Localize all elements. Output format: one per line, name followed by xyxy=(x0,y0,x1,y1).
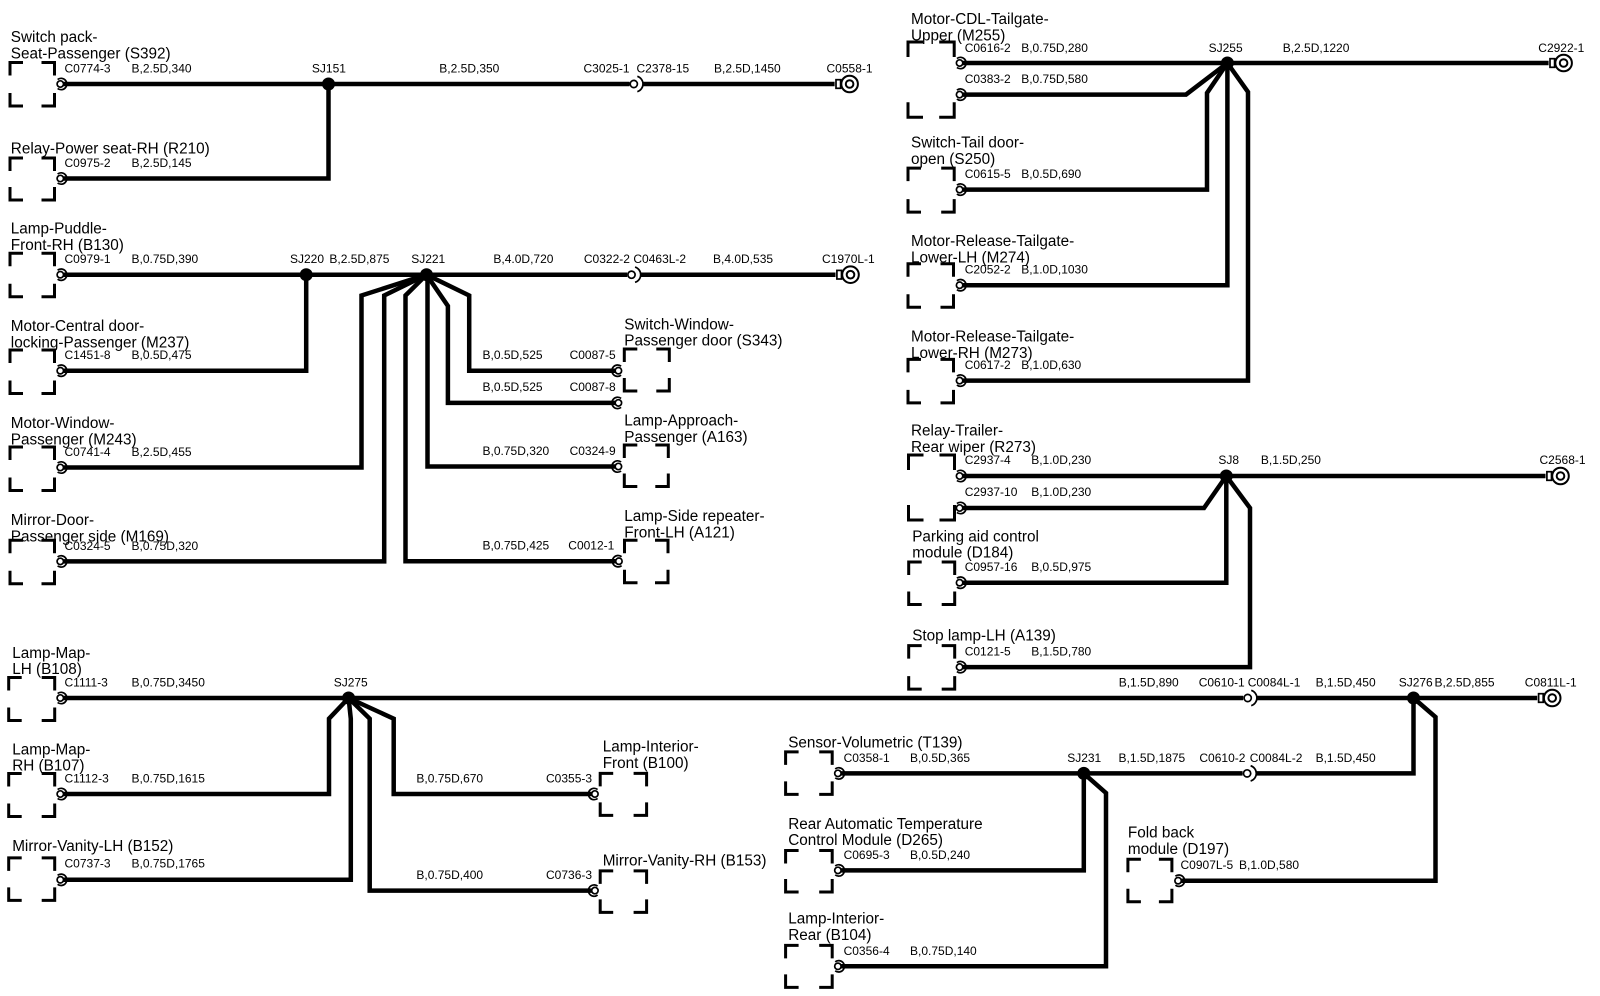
svg-text:C0957-16: C0957-16 xyxy=(965,560,1018,574)
connector box T139 xyxy=(786,752,833,795)
splice SJ151 xyxy=(322,78,335,91)
connector box D184 xyxy=(909,562,955,605)
pin C0087-8 xyxy=(612,397,622,408)
wire M243 C0741-4 to SJ221 xyxy=(63,275,427,468)
eyelet terminal C0811L-1 xyxy=(1539,690,1561,707)
wire B130 C0979-1 to C0322-2 xyxy=(63,272,627,277)
svg-text:B,1.0D,1030: B,1.0D,1030 xyxy=(1021,263,1088,277)
pin C0695-3 xyxy=(835,865,845,876)
svg-text:C1112-3: C1112-3 xyxy=(65,771,110,785)
wire S250 C0615-5 to SJ255 xyxy=(963,63,1227,190)
svg-text:C0121-5: C0121-5 xyxy=(965,644,1011,658)
wire M255 C0616-2 to C2922-1 xyxy=(963,61,1549,66)
svg-text:B,1.0D,630: B,1.0D,630 xyxy=(1021,358,1081,372)
svg-text:B,0.5D,365: B,0.5D,365 xyxy=(910,751,970,765)
wire B107 C1112-3 to SJ275 xyxy=(63,698,349,794)
eyelet terminal C0558-1 xyxy=(836,76,858,93)
inline connector C0322-2/C0463L-2 xyxy=(628,267,641,282)
connector box S250 xyxy=(908,168,954,212)
pin C0774-3 xyxy=(57,78,67,89)
svg-text:C0087-8: C0087-8 xyxy=(570,380,616,394)
svg-text:C0617-2: C0617-2 xyxy=(965,358,1011,372)
wire SJ221 to C0324-9 xyxy=(428,275,616,467)
svg-text:C0811L-1: C0811L-1 xyxy=(1525,676,1577,690)
wire M274 C2052-2 to SJ255 xyxy=(963,63,1227,285)
connector box M255 xyxy=(908,42,954,117)
wire D197 C0907L-5 to SJ276 xyxy=(1181,698,1435,881)
pin C2937-10 xyxy=(956,502,966,513)
inline connector C3025-1/C2378-15 xyxy=(630,76,643,91)
wire M255 C0383-2 to SJ255 xyxy=(963,63,1227,95)
splice SJ231 xyxy=(1077,767,1090,780)
svg-text:C2568-1: C2568-1 xyxy=(1540,453,1586,467)
connector box B104 xyxy=(786,945,833,987)
wire R273 C2937-10 to SJ8 xyxy=(963,476,1226,508)
svg-text:Lamp-Map-: Lamp-Map- xyxy=(12,645,90,662)
svg-text:Switch-Tail door-: Switch-Tail door- xyxy=(911,135,1024,152)
svg-text:Stop lamp-LH (A139): Stop lamp-LH (A139) xyxy=(912,628,1056,645)
svg-text:B,0.5D,525: B,0.5D,525 xyxy=(483,380,543,394)
connector box R210 xyxy=(10,158,55,200)
svg-text:B,0.5D,690: B,0.5D,690 xyxy=(1021,167,1081,181)
svg-text:C2378-15: C2378-15 xyxy=(637,62,690,76)
connector box B108 xyxy=(9,678,55,721)
pin C0324-5 xyxy=(57,556,67,567)
svg-text:B,1.5D,780: B,1.5D,780 xyxy=(1031,644,1091,658)
svg-text:Control Module (D265): Control Module (D265) xyxy=(788,832,943,849)
svg-text:B,2.5D,455: B,2.5D,455 xyxy=(132,445,192,459)
pin C0957-16 xyxy=(956,577,966,588)
svg-text:B,1.5D,890: B,1.5D,890 xyxy=(1119,676,1179,690)
svg-text:SJ151: SJ151 xyxy=(312,62,346,76)
pin C0741-4 xyxy=(57,462,67,473)
svg-text:Rear (B104): Rear (B104) xyxy=(788,927,871,944)
svg-text:C0012-1: C0012-1 xyxy=(568,539,614,553)
wire D265 C0695-3 to SJ231 xyxy=(841,773,1084,870)
svg-text:B,0.75D,400: B,0.75D,400 xyxy=(416,868,483,882)
svg-text:C2922-1: C2922-1 xyxy=(1538,41,1584,55)
wire R210 C0975-2 to SJ151 xyxy=(63,84,329,179)
svg-text:B,1.0D,580: B,1.0D,580 xyxy=(1239,858,1299,872)
svg-text:Lamp-Interior-: Lamp-Interior- xyxy=(788,911,884,928)
svg-text:B,4.0D,535: B,4.0D,535 xyxy=(713,252,773,266)
svg-text:Lamp-Side repeater-: Lamp-Side repeater- xyxy=(624,508,764,525)
svg-text:B,0.75D,140: B,0.75D,140 xyxy=(910,944,977,958)
pin C1451-8 xyxy=(57,365,67,376)
svg-text:Passenger (A163): Passenger (A163) xyxy=(624,429,747,446)
svg-text:SJ255: SJ255 xyxy=(1209,41,1243,55)
svg-text:B,0.75D,580: B,0.75D,580 xyxy=(1021,72,1088,86)
pin C0616-2 xyxy=(956,57,966,68)
svg-text:B,2.5D,1220: B,2.5D,1220 xyxy=(1283,41,1350,55)
wire C0084L-2 to SJ276 xyxy=(1256,698,1413,773)
svg-text:B,0.75D,1765: B,0.75D,1765 xyxy=(132,857,206,871)
svg-text:open (S250): open (S250) xyxy=(911,151,995,168)
connector box D265 xyxy=(786,851,833,893)
svg-text:C0324-9: C0324-9 xyxy=(570,444,616,458)
inline connector C0610-2/C0084L-2 xyxy=(1244,766,1257,781)
svg-text:C0358-1: C0358-1 xyxy=(844,751,890,765)
svg-text:C0695-3: C0695-3 xyxy=(844,848,890,862)
svg-text:Sensor-Volumetric (T139): Sensor-Volumetric (T139) xyxy=(788,734,962,751)
pin C0355-3 xyxy=(588,788,598,799)
svg-text:C0736-3: C0736-3 xyxy=(546,868,592,882)
svg-text:B,2.5D,855: B,2.5D,855 xyxy=(1435,676,1495,690)
wire B104 C0356-4 to SJ231 xyxy=(841,773,1106,966)
svg-text:B,1.0D,230: B,1.0D,230 xyxy=(1031,453,1091,467)
connector box A121 xyxy=(625,540,669,583)
svg-text:B,2.5D,1450: B,2.5D,1450 xyxy=(714,62,781,76)
wire M237 C1451-8 to SJ220 xyxy=(63,275,306,371)
connector box B152 xyxy=(9,858,55,901)
svg-text:Motor-CDL-Tailgate-: Motor-CDL-Tailgate- xyxy=(911,11,1049,28)
svg-text:C0907L-5: C0907L-5 xyxy=(1181,858,1234,872)
svg-text:Relay-Power seat-RH (R210): Relay-Power seat-RH (R210) xyxy=(11,141,210,158)
wire M169 C0324-5 to SJ221 xyxy=(63,275,427,562)
pin C0615-5 xyxy=(956,184,966,195)
svg-text:C0558-1: C0558-1 xyxy=(827,62,873,76)
connector box S343 xyxy=(624,349,669,391)
svg-text:B,1.5D,450: B,1.5D,450 xyxy=(1316,751,1376,765)
svg-text:Front-LH (A121): Front-LH (A121) xyxy=(624,524,735,541)
svg-text:Motor-Release-Tailgate-: Motor-Release-Tailgate- xyxy=(911,233,1074,250)
svg-text:B,0.75D,3450: B,0.75D,3450 xyxy=(132,676,206,690)
connector box M243 xyxy=(10,447,55,491)
eyelet terminal C1970L-1 xyxy=(837,266,859,283)
svg-text:SJ231: SJ231 xyxy=(1067,751,1101,765)
svg-text:C0383-2: C0383-2 xyxy=(965,72,1011,86)
svg-text:C0355-3: C0355-3 xyxy=(546,771,592,785)
pin C0907L-5 xyxy=(1175,875,1185,886)
wire SJ221 to C0087-8 xyxy=(427,275,616,403)
connector box B153 xyxy=(600,871,646,913)
connector box A139 xyxy=(909,646,955,690)
wire S392 C0774-3 to C3025-1 xyxy=(63,82,630,87)
svg-text:B,2.5D,875: B,2.5D,875 xyxy=(329,252,389,266)
svg-text:C0979-1: C0979-1 xyxy=(65,252,111,266)
svg-text:SJ275: SJ275 xyxy=(334,676,368,690)
svg-text:C0356-4: C0356-4 xyxy=(844,944,890,958)
svg-text:C0324-5: C0324-5 xyxy=(65,539,111,553)
svg-text:B,0.75D,280: B,0.75D,280 xyxy=(1021,41,1088,55)
svg-text:Mirror-Vanity-RH (B153): Mirror-Vanity-RH (B153) xyxy=(603,852,767,869)
svg-text:Lamp-Interior-: Lamp-Interior- xyxy=(603,739,699,756)
splice SJ220 xyxy=(300,268,313,281)
pin C0324-9 xyxy=(612,461,622,472)
svg-text:Parking aid control: Parking aid control xyxy=(912,528,1039,545)
svg-text:Motor-Release-Tailgate-: Motor-Release-Tailgate- xyxy=(911,329,1074,346)
pin C1112-3 xyxy=(57,788,67,799)
pin C1111-3 xyxy=(57,692,67,703)
pin C0087-5 xyxy=(612,365,622,376)
svg-text:B,0.5D,525: B,0.5D,525 xyxy=(483,348,543,362)
svg-text:B,2.5D,350: B,2.5D,350 xyxy=(439,62,499,76)
svg-text:C1970L-1: C1970L-1 xyxy=(822,252,875,266)
svg-text:C0084L-2: C0084L-2 xyxy=(1250,751,1303,765)
svg-text:B,0.75D,425: B,0.75D,425 xyxy=(483,539,550,553)
eyelet terminal C2568-1 xyxy=(1547,468,1569,485)
svg-text:B,0.75D,670: B,0.75D,670 xyxy=(416,771,483,785)
pin C0736-3 xyxy=(588,885,598,896)
svg-text:Fold back: Fold back xyxy=(1128,825,1195,842)
svg-text:B,1.5D,250: B,1.5D,250 xyxy=(1261,453,1321,467)
pin C0012-1 xyxy=(612,556,622,567)
svg-text:SJ221: SJ221 xyxy=(411,252,445,266)
svg-text:Motor-Window-: Motor-Window- xyxy=(11,415,115,432)
svg-text:B,2.5D,340: B,2.5D,340 xyxy=(132,62,192,76)
pin C0121-5 xyxy=(956,661,966,672)
svg-text:SJ8: SJ8 xyxy=(1218,453,1239,467)
svg-text:C0741-4: C0741-4 xyxy=(65,445,111,459)
pin C2937-4 xyxy=(956,470,966,481)
bus wire B108 C1111-3 to C0610-1 xyxy=(63,696,1243,701)
pin C0383-2 xyxy=(956,89,966,100)
connector box B100 xyxy=(600,773,646,815)
wire SJ221 to C0012-1 xyxy=(406,275,616,562)
svg-text:B,0.75D,390: B,0.75D,390 xyxy=(132,252,199,266)
wire SJ275 to C0355-3 xyxy=(349,698,592,794)
pin C2052-2 xyxy=(956,280,966,291)
svg-text:C2937-10: C2937-10 xyxy=(965,485,1018,499)
wire D184 C0957-16 to SJ8 xyxy=(963,476,1226,583)
connector box A163 xyxy=(624,445,668,487)
pin C0617-2 xyxy=(956,375,966,386)
svg-text:Front (B100): Front (B100) xyxy=(603,755,689,772)
connector box B107 xyxy=(9,774,55,817)
svg-text:Passenger door (S343): Passenger door (S343) xyxy=(624,333,782,350)
connector box D197 xyxy=(1128,859,1172,902)
connector box S392 xyxy=(10,63,55,107)
svg-text:C0087-5: C0087-5 xyxy=(570,348,616,362)
connector box M273 xyxy=(908,359,954,403)
svg-text:Motor-Central door-: Motor-Central door- xyxy=(11,318,144,335)
eyelet terminal C2922-1 xyxy=(1550,55,1572,72)
svg-text:Mirror-Door-: Mirror-Door- xyxy=(11,512,94,529)
pin C0358-1 xyxy=(835,768,845,779)
svg-text:Switch pack-: Switch pack- xyxy=(11,29,98,46)
svg-text:Mirror-Vanity-LH (B152): Mirror-Vanity-LH (B152) xyxy=(12,838,173,855)
svg-text:B,0.75D,320: B,0.75D,320 xyxy=(132,539,199,553)
svg-text:C0616-2: C0616-2 xyxy=(965,41,1011,55)
wire C2378-15 to C0558-1 xyxy=(643,82,835,87)
svg-text:Relay-Trailer-: Relay-Trailer- xyxy=(911,423,1003,440)
svg-text:C0615-5: C0615-5 xyxy=(965,167,1011,181)
wire C0463L-2 to C1970L-1 xyxy=(641,272,836,277)
svg-text:C0610-2: C0610-2 xyxy=(1199,751,1245,765)
svg-text:C1451-8: C1451-8 xyxy=(65,348,111,362)
svg-text:C0463L-2: C0463L-2 xyxy=(633,252,686,266)
wire M273 C0617-2 to SJ255 xyxy=(963,63,1248,381)
splice SJ275 xyxy=(342,692,355,705)
pin C0737-3 xyxy=(57,874,67,885)
svg-text:Lamp-Map-: Lamp-Map- xyxy=(12,741,90,758)
svg-text:C3025-1: C3025-1 xyxy=(584,62,630,76)
svg-text:C0084L-1: C0084L-1 xyxy=(1248,676,1301,690)
wire A139 C0121-5 to SJ8 xyxy=(963,476,1250,667)
svg-text:Rear Automatic Temperature: Rear Automatic Temperature xyxy=(788,816,982,833)
connector box R273 xyxy=(909,455,955,520)
svg-text:Seat-Passenger (S392): Seat-Passenger (S392) xyxy=(11,45,171,62)
splice SJ276 xyxy=(1407,692,1420,705)
svg-text:C1111-3: C1111-3 xyxy=(65,676,109,690)
svg-text:B,4.0D,720: B,4.0D,720 xyxy=(493,252,553,266)
svg-text:C2052-2: C2052-2 xyxy=(965,263,1011,277)
connector box M169 xyxy=(10,540,55,584)
connector box B130 xyxy=(10,253,55,297)
svg-text:C0610-1: C0610-1 xyxy=(1199,676,1245,690)
svg-text:C0975-2: C0975-2 xyxy=(65,156,111,170)
svg-text:B,0.75D,1615: B,0.75D,1615 xyxy=(132,771,206,785)
svg-text:SJ220: SJ220 xyxy=(290,252,324,266)
splice SJ255 xyxy=(1221,57,1234,70)
svg-text:C0322-2: C0322-2 xyxy=(584,252,630,266)
svg-text:C2937-4: C2937-4 xyxy=(965,453,1011,467)
svg-text:B,2.5D,145: B,2.5D,145 xyxy=(132,156,192,170)
connector box M237 xyxy=(10,350,55,394)
svg-text:B,0.75D,320: B,0.75D,320 xyxy=(483,444,550,458)
bus wire C0084L-1 to C0811L-1 xyxy=(1257,696,1538,701)
svg-text:SJ276: SJ276 xyxy=(1399,676,1433,690)
svg-text:B,1.0D,230: B,1.0D,230 xyxy=(1031,485,1091,499)
svg-text:Lamp-Puddle-: Lamp-Puddle- xyxy=(11,221,107,238)
svg-text:B,0.5D,240: B,0.5D,240 xyxy=(910,848,970,862)
svg-text:module (D197): module (D197) xyxy=(1128,841,1229,858)
wire SJ221 to C0087-5 xyxy=(427,275,616,371)
pin C0979-1 xyxy=(57,269,67,280)
svg-text:B,0.5D,475: B,0.5D,475 xyxy=(132,348,192,362)
wire B152 C0737-3 to SJ275 xyxy=(63,698,351,880)
pin C0356-4 xyxy=(835,961,845,972)
splice SJ8 xyxy=(1220,470,1233,483)
svg-text:C0774-3: C0774-3 xyxy=(65,62,111,76)
splice SJ221 xyxy=(420,268,433,281)
svg-text:B,0.5D,975: B,0.5D,975 xyxy=(1031,560,1091,574)
connector box M274 xyxy=(908,264,954,308)
inline connector C0610-1/C0084L-1 xyxy=(1244,690,1257,705)
svg-text:Switch-Window-: Switch-Window- xyxy=(624,316,734,333)
pin C0975-2 xyxy=(57,173,67,184)
svg-text:Lamp-Approach-: Lamp-Approach- xyxy=(624,413,738,430)
svg-text:B,1.5D,450: B,1.5D,450 xyxy=(1316,676,1376,690)
wire SJ275 to C0736-3 xyxy=(349,698,592,891)
svg-text:B,1.5D,1875: B,1.5D,1875 xyxy=(1119,751,1186,765)
wire R273 C2937-4 to C2568-1 xyxy=(963,474,1546,479)
wire T139 C0358-1 to C0610-2 xyxy=(841,771,1243,776)
svg-text:C0737-3: C0737-3 xyxy=(65,857,111,871)
